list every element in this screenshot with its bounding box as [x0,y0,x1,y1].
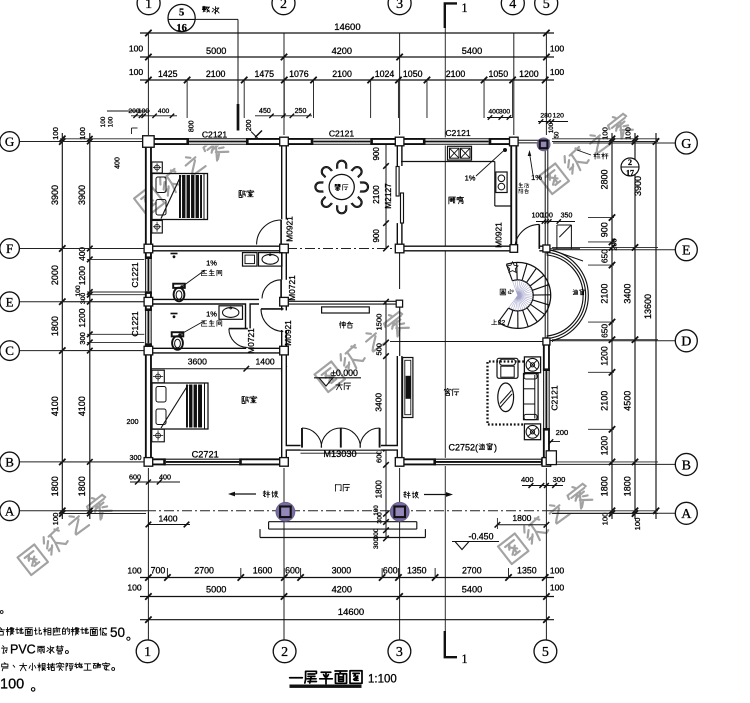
svg-text:100: 100 [550,44,565,54]
svg-text:200: 200 [246,119,253,131]
svg-text:B: B [5,454,14,469]
svg-text:2000: 2000 [50,265,60,285]
svg-text:4100: 4100 [50,396,60,416]
svg-text:1350: 1350 [407,565,427,575]
svg-text:13600: 13600 [643,294,653,319]
svg-text:2: 2 [628,158,632,167]
svg-text:3900: 3900 [77,185,87,205]
svg-text:3900: 3900 [633,176,643,196]
svg-text:1500: 1500 [375,314,384,331]
svg-text:400: 400 [521,475,534,484]
svg-text:G: G [681,137,691,152]
svg-text:2100: 2100 [332,69,352,79]
svg-text:1: 1 [145,0,152,12]
svg-text:2700: 2700 [462,565,482,575]
svg-text:100: 100 [633,518,642,531]
svg-text:200: 200 [610,238,619,250]
svg-text:100: 100 [129,67,144,77]
svg-text:100: 100 [550,583,565,593]
svg-text:1%: 1% [206,310,217,319]
svg-text:1200: 1200 [77,308,87,327]
svg-text:4200: 4200 [332,584,352,594]
svg-text:1200: 1200 [77,266,87,285]
svg-text:3600: 3600 [188,357,207,367]
svg-text:2700: 2700 [194,565,214,575]
svg-text:100: 100 [78,127,87,140]
svg-text:4: 4 [509,0,516,12]
svg-text:4200: 4200 [332,46,352,56]
svg-text:100: 100 [550,565,565,575]
svg-text:300: 300 [373,538,380,549]
svg-text:1076: 1076 [289,69,309,79]
svg-text:100: 100 [601,127,610,140]
svg-text:650: 650 [600,249,610,263]
svg-text:B: B [682,458,691,473]
svg-text:5: 5 [543,0,550,12]
svg-text:5: 5 [179,8,184,19]
svg-text:2100: 2100 [206,69,226,79]
svg-text:700: 700 [151,565,166,575]
svg-text:1800: 1800 [623,476,633,496]
svg-text:4500: 4500 [623,391,633,411]
svg-text:1200: 1200 [600,346,610,366]
svg-text:1475: 1475 [254,69,274,79]
svg-text:100: 100 [541,213,553,220]
svg-text:5400: 5400 [462,46,482,56]
svg-text:PVC: PVC [10,643,36,657]
svg-text:C2121: C2121 [550,385,560,411]
svg-text:3900: 3900 [50,185,60,205]
svg-text:100: 100 [127,565,142,575]
svg-text:300: 300 [78,332,87,344]
svg-text:C1221: C1221 [130,311,140,337]
svg-text:-0.450: -0.450 [469,531,494,541]
svg-text:M0921: M0921 [284,216,294,242]
svg-text:100: 100 [0,677,24,693]
svg-text:1800: 1800 [50,476,60,496]
svg-text:E: E [682,244,691,259]
svg-text:1200: 1200 [519,69,539,79]
svg-text:900: 900 [372,147,381,161]
svg-text:C2121: C2121 [329,128,355,138]
svg-text:M13030: M13030 [323,449,356,459]
svg-text:5000: 5000 [206,46,226,56]
svg-text:3400: 3400 [623,284,633,304]
svg-text:3000: 3000 [332,565,352,575]
svg-text:2100: 2100 [446,69,466,79]
svg-text:800: 800 [189,120,196,132]
svg-text:2100: 2100 [600,284,610,304]
svg-text:600: 600 [375,450,384,463]
svg-text:C2721: C2721 [192,450,219,460]
svg-text:50: 50 [110,625,125,640]
svg-text:100: 100 [129,44,144,54]
svg-text:900: 900 [600,222,610,237]
svg-text:100: 100 [51,513,60,526]
svg-text:A: A [681,507,692,522]
svg-text:F: F [6,241,13,256]
svg-text:100: 100 [548,122,555,133]
svg-text:1050: 1050 [403,69,423,79]
svg-text:1050: 1050 [489,69,509,79]
svg-text:600: 600 [285,565,300,575]
svg-text:1: 1 [461,652,467,666]
svg-text:1350: 1350 [517,565,537,575]
svg-text:300: 300 [499,109,511,116]
svg-text:C2121: C2121 [445,128,471,138]
svg-text:D: D [681,335,691,350]
svg-text:650: 650 [600,324,610,338]
svg-text:400: 400 [115,157,122,169]
svg-text:16: 16 [176,23,187,34]
svg-text:1800: 1800 [77,476,87,496]
svg-text:M2127: M2127 [383,183,393,209]
svg-text:2100: 2100 [371,185,381,204]
svg-text:C2121: C2121 [202,130,228,140]
svg-text:1400: 1400 [256,357,275,367]
svg-text:5400: 5400 [462,584,482,594]
svg-text:A: A [5,503,15,518]
svg-text:200: 200 [127,417,139,426]
svg-text:2100: 2100 [600,391,610,411]
svg-text:1800: 1800 [375,480,384,499]
svg-text:C: C [5,343,14,358]
svg-text:C1221: C1221 [130,262,140,288]
svg-text:14600: 14600 [334,22,360,33]
svg-text:100: 100 [100,116,107,127]
svg-text:100: 100 [51,127,60,140]
svg-text:4100: 4100 [77,396,87,416]
svg-text:5: 5 [542,645,549,660]
svg-text:500: 500 [375,343,384,355]
svg-text:M0921: M0921 [494,222,504,248]
svg-text:1200: 1200 [600,436,610,456]
svg-text:100: 100 [624,127,633,140]
svg-text:100: 100 [373,505,380,516]
svg-text:280: 280 [540,113,552,120]
svg-text:1800: 1800 [512,513,531,523]
svg-text:1:100: 1:100 [368,673,397,685]
svg-text:3: 3 [396,645,403,660]
svg-text:100: 100 [138,108,150,115]
svg-text:3: 3 [396,0,403,12]
svg-text:E: E [6,294,14,309]
svg-text:100: 100 [550,67,565,77]
svg-text:2: 2 [281,645,288,660]
svg-text:3400: 3400 [374,393,384,412]
svg-text:5000: 5000 [206,584,226,594]
svg-text:200: 200 [556,428,569,437]
svg-text:600: 600 [383,565,398,575]
svg-text:300: 300 [553,475,566,484]
svg-text:300: 300 [80,293,87,305]
svg-text:100: 100 [601,513,610,526]
svg-text:50: 50 [555,131,561,138]
svg-text:100: 100 [108,116,115,127]
svg-text:M0921: M0921 [283,320,293,346]
svg-text:1%: 1% [206,259,217,268]
svg-text:1: 1 [461,1,467,15]
svg-text:M0721: M0721 [246,328,256,354]
svg-text:17: 17 [626,168,634,177]
svg-text:1: 1 [144,645,151,660]
svg-text:14600: 14600 [338,607,364,618]
svg-text:22: 22 [498,320,506,327]
svg-text:300: 300 [130,453,142,462]
svg-text:1%: 1% [465,173,476,182]
svg-text:120: 120 [553,113,565,120]
svg-text:2: 2 [280,0,287,12]
svg-text:1%: 1% [531,173,542,182]
svg-text:): ) [494,442,497,452]
svg-text:1400: 1400 [158,514,177,524]
svg-text:M0721: M0721 [287,275,297,301]
svg-text:1800: 1800 [600,476,610,496]
svg-text:G: G [5,134,14,149]
svg-text:450: 450 [259,108,271,115]
svg-text:1600: 1600 [253,565,273,575]
svg-text:1800: 1800 [50,316,60,336]
svg-text:350: 350 [561,213,573,220]
svg-text:±0.000: ±0.000 [331,368,358,378]
svg-text:C2752(: C2752( [449,442,479,452]
svg-text:1425: 1425 [158,69,178,79]
svg-text:900: 900 [372,229,381,243]
svg-text:2800: 2800 [600,169,610,189]
svg-text:250: 250 [295,108,307,115]
svg-text:100: 100 [127,583,142,593]
svg-text:1024: 1024 [375,69,395,79]
svg-text:400: 400 [158,108,170,115]
